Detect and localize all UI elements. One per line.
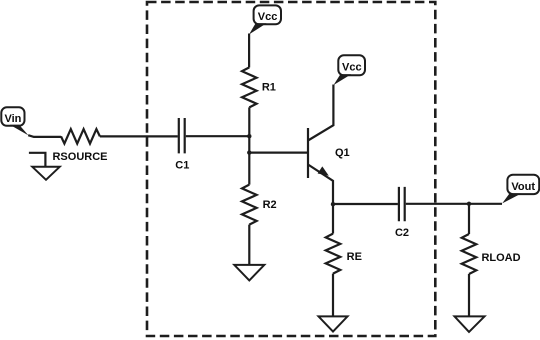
label Q1 [335, 147, 350, 159]
capacitor C2 [399, 187, 405, 221]
resistor R2 [242, 185, 257, 225]
resistor RE [326, 234, 341, 274]
node label Vcc (collector supply) [334, 55, 365, 85]
svg-text:Vcc: Vcc [258, 11, 278, 23]
wire RSOURCE to C1 [100, 135, 178, 137]
label RSOURCE [52, 151, 107, 163]
capacitor C1 [179, 118, 185, 153]
label C1 [175, 159, 189, 171]
junction node B [247, 150, 251, 154]
svg-text:RSOURCE: RSOURCE [52, 151, 107, 163]
label RE [347, 251, 362, 263]
label C2 [395, 227, 409, 239]
wire node D to RLOAD [468, 204, 470, 234]
resistor RSOURCE [61, 129, 100, 144]
ground (RLOAD) [455, 316, 485, 332]
resistor R1 [242, 67, 257, 107]
wire Vcc to R1 [248, 34, 250, 68]
svg-text:RE: RE [347, 251, 362, 263]
node label Vout [502, 175, 539, 204]
svg-text:RLOAD: RLOAD [481, 252, 520, 264]
wire C1 to node A [186, 135, 250, 137]
wire node B to R2 [248, 153, 250, 185]
svg-text:Vin: Vin [4, 113, 21, 125]
svg-text:Q1: Q1 [335, 147, 350, 159]
wire node B to Q1 base [249, 152, 307, 154]
svg-text:C1: C1 [175, 159, 189, 171]
svg-text:C2: C2 [395, 227, 409, 239]
svg-text:Vout: Vout [511, 181, 535, 193]
transistor Q1 [308, 85, 333, 205]
wire node C to RE [332, 204, 334, 233]
wire node A to node B [248, 136, 250, 152]
wire RE to ground [332, 274, 334, 317]
svg-text:Vcc: Vcc [342, 62, 362, 74]
ground (R2) [234, 265, 264, 281]
svg-text:R2: R2 [263, 199, 277, 211]
amplifier boundary dashed box [147, 2, 435, 336]
ground (RE) [319, 316, 348, 331]
wire RLOAD to ground [468, 274, 470, 316]
label RLOAD [481, 252, 520, 264]
label R2 [263, 199, 277, 211]
wire node D to Vout [469, 203, 502, 205]
wire R2 to ground [248, 225, 250, 265]
node label Vin [1, 107, 28, 135]
node label Vcc (R1 supply) [249, 5, 281, 34]
wire R1 to node A [248, 107, 250, 136]
junction node C (emitter) [331, 202, 335, 206]
svg-text:R1: R1 [262, 82, 276, 94]
label R1 [262, 82, 276, 94]
wire Vin to RSOURCE [28, 135, 61, 137]
junction node A [247, 134, 251, 138]
wire node C to C2 [333, 203, 398, 205]
resistor RLOAD [462, 234, 477, 274]
ground (input reference) [29, 153, 60, 180]
wire C2 to node D [406, 203, 469, 205]
junction node D [467, 202, 471, 206]
